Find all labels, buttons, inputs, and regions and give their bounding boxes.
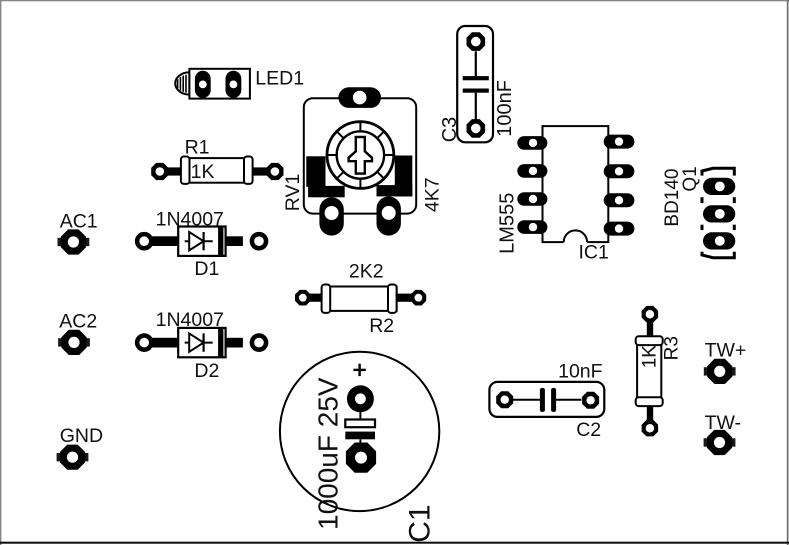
svg-text:GND: GND xyxy=(60,425,103,447)
pad D2 cathode xyxy=(250,333,269,352)
svg-text:10nF: 10nF xyxy=(558,360,603,382)
svg-text:C2: C2 xyxy=(576,419,601,441)
Q1 silkscreen clearance xyxy=(700,176,738,252)
pad IC1 pin 1 xyxy=(517,136,547,150)
svg-text:LM555: LM555 xyxy=(497,193,519,254)
diode D2 symbol xyxy=(185,342,213,344)
terminal GND xyxy=(57,453,62,461)
RV1 screw slot xyxy=(349,137,372,174)
capacitor C3 body xyxy=(457,26,493,142)
svg-text:Q1: Q1 xyxy=(680,166,701,191)
RV1 rotor ticks xyxy=(327,122,394,189)
RV1 right tab xyxy=(395,156,413,197)
LED1 dome xyxy=(175,72,189,94)
resistor R1 lead left xyxy=(167,167,183,175)
LED1 pad 1 (cathode) xyxy=(195,71,211,98)
svg-text:2K2: 2K2 xyxy=(349,260,384,282)
pad IC1 pin 8 xyxy=(604,135,635,149)
diode D1 lead right xyxy=(225,236,243,246)
svg-text:1N4007: 1N4007 xyxy=(156,209,224,231)
RV1 rotor outer circle xyxy=(327,122,394,189)
resistor R3 body xyxy=(637,337,661,405)
svg-text:1K: 1K xyxy=(191,161,215,183)
svg-text:D2: D2 xyxy=(194,360,219,382)
svg-text:AC2: AC2 xyxy=(59,311,97,333)
resistor R1 body xyxy=(182,158,252,183)
pad IC1 pin 7 xyxy=(604,164,635,178)
IC1 notch xyxy=(564,241,587,244)
C1 connect lines xyxy=(359,410,361,420)
resistor R2 lead right xyxy=(395,294,413,302)
diode D2 body xyxy=(178,328,225,357)
trimpot RV1 body xyxy=(304,98,416,213)
pad Q1 pin 3 xyxy=(703,232,735,249)
svg-text:4K7: 4K7 xyxy=(421,177,443,212)
svg-text:R3: R3 xyxy=(662,336,683,360)
C3 symbol xyxy=(475,51,477,76)
terminal AC1 xyxy=(58,238,63,246)
RV1 right foot xyxy=(377,185,413,196)
pad RV1 leg right xyxy=(377,196,401,235)
svg-text:RV1: RV1 xyxy=(282,174,304,212)
pad IC1 pin 6 xyxy=(604,193,635,207)
C1 plus mark xyxy=(353,369,365,371)
pad C2.2 xyxy=(582,392,599,409)
C1 plate (plus) xyxy=(345,420,375,428)
svg-text:C3: C3 xyxy=(439,117,461,143)
pad D1 anode xyxy=(135,232,154,251)
capacitor C1 outline circle xyxy=(280,352,439,511)
pad R3.1 xyxy=(642,306,659,323)
svg-text:1K: 1K xyxy=(639,345,660,369)
svg-text:TW-: TW- xyxy=(705,412,741,434)
op-amp/timer IC1 body xyxy=(543,126,609,242)
pad C1 plus xyxy=(347,385,374,412)
resistor R1 lead right xyxy=(251,167,269,175)
svg-text:1N4007: 1N4007 xyxy=(156,309,224,331)
svg-text:D1: D1 xyxy=(194,258,219,280)
svg-text:1000uF 25V: 1000uF 25V xyxy=(313,377,344,530)
pad RV1 wiper xyxy=(338,87,381,108)
resistor R3 lead bottom xyxy=(647,405,653,422)
svg-text:IC1: IC1 xyxy=(579,242,609,264)
pad Q1 pin 1 xyxy=(703,178,735,195)
svg-text:AC1: AC1 xyxy=(60,210,98,232)
diode D2 lead left xyxy=(151,338,180,348)
pad D2 anode xyxy=(135,333,154,352)
svg-text:LED1: LED1 xyxy=(255,68,304,90)
diode D1 lead left xyxy=(151,236,180,246)
pad D1 cathode xyxy=(250,232,269,251)
RV1 rotor inner circle xyxy=(337,131,384,178)
pad IC1 pin 4 xyxy=(517,220,547,234)
LED1 body xyxy=(189,69,250,99)
LED1 pad 2 (anode) xyxy=(226,71,242,98)
terminal AC2 xyxy=(58,338,63,346)
svg-text:C1: C1 xyxy=(404,504,437,542)
resistor R2 body xyxy=(323,287,397,311)
capacitor C2 body xyxy=(489,382,604,417)
svg-text:100nF: 100nF xyxy=(494,80,516,137)
svg-text:R2: R2 xyxy=(369,315,394,337)
diode D2 cathode band xyxy=(218,328,223,357)
pad C2.1 xyxy=(496,391,513,408)
pad IC1 pin 3 xyxy=(517,192,547,206)
pad R2.1 xyxy=(295,290,311,306)
pad R1.1 xyxy=(151,163,168,180)
pad Q1 pin 2 xyxy=(703,205,735,222)
pad R3.2 xyxy=(642,420,659,437)
pad IC1 pin 5 xyxy=(604,222,635,236)
diode D1 cathode band xyxy=(218,227,223,256)
C2 symbol xyxy=(513,399,540,401)
transistor Q1 outline xyxy=(702,168,734,257)
RV1 left tab xyxy=(306,156,325,187)
resistor R3 lead top xyxy=(647,321,653,338)
pad C1 minus xyxy=(346,443,376,473)
pad R2.2 xyxy=(411,290,427,306)
diode D1 body xyxy=(178,227,225,256)
RV1 left foot xyxy=(308,186,345,197)
resistor R2 lead left xyxy=(308,294,324,302)
terminal TW- xyxy=(704,438,709,446)
svg-text:R1: R1 xyxy=(185,136,210,158)
pad RV1 leg left xyxy=(319,197,343,235)
pad C3.2 xyxy=(467,119,486,138)
pad IC1 pin 2 xyxy=(517,164,547,178)
diode D1 symbol xyxy=(185,240,213,242)
pad C3.1 xyxy=(467,32,486,51)
svg-text:TW+: TW+ xyxy=(705,339,747,361)
diode D2 lead right xyxy=(225,338,243,348)
pad R1.2 xyxy=(266,163,283,180)
terminal TW+ xyxy=(704,367,709,375)
C1 plate (minus) xyxy=(345,432,375,440)
